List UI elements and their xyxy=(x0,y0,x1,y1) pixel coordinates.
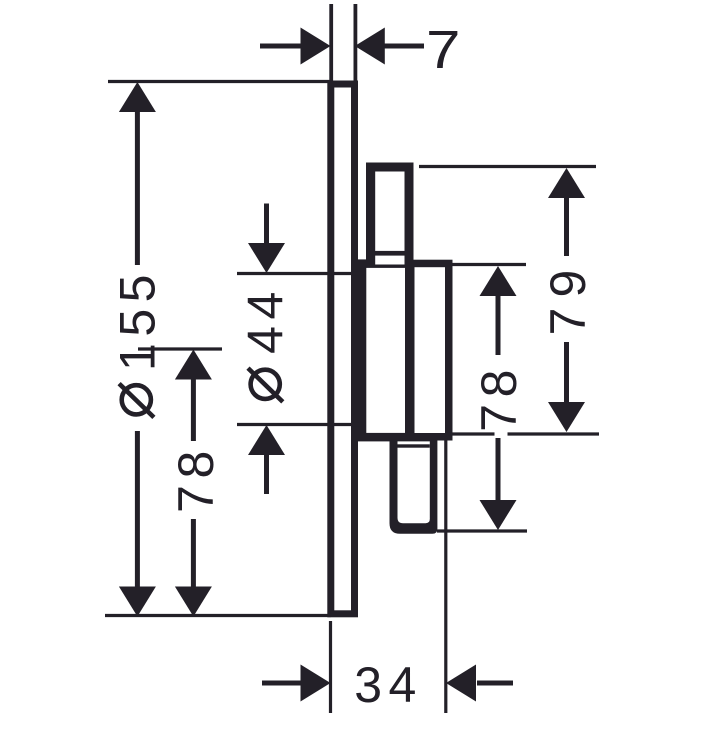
svg-text:79: 79 xyxy=(540,260,596,336)
svg-text:155: 155 xyxy=(109,268,165,371)
svg-text:7: 7 xyxy=(426,20,460,80)
svg-text:44: 44 xyxy=(238,285,294,354)
svg-text:78: 78 xyxy=(471,363,527,432)
svg-text:78: 78 xyxy=(168,444,224,513)
svg-text:34: 34 xyxy=(354,657,423,713)
